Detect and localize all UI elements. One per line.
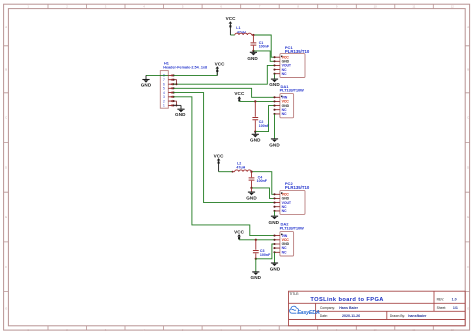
wire: C3 bottom to DA2 GND [256,244,291,259]
wire: L1 out to PC1 VCC [253,35,274,57]
wire: L2 out to PC2 VCC [252,172,275,195]
ground (DA1 pin5) [269,139,280,148]
svg-text:GND: GND [246,196,257,201]
svg-text:Hans Baier: Hans Baier [339,306,358,310]
svg-text:GND: GND [269,143,280,148]
svg-text:1.0: 1.0 [452,297,457,301]
svg-text:A: A [5,25,7,29]
ground (C2) [250,132,261,143]
power flag VCC (DA2) [234,229,245,240]
capacitor C4 [249,172,268,188]
svg-text:C: C [467,116,469,120]
svg-text:hansfbaier: hansfbaier [408,314,427,318]
optical receiver PC1 PLR135/T10 [273,45,309,77]
wire: header pin3 to DA2 VIN [173,97,274,236]
wire: C4 bottom to PC2 GND [252,188,275,199]
svg-text:D: D [467,165,469,169]
wire: header pin8 to VCC [173,69,217,76]
junction (C1 bottom) [252,50,254,52]
wire: C3 bottom to GND [255,259,257,272]
title block [289,291,466,326]
svg-text:EasyEDA: EasyEDA [297,310,320,316]
svg-text:12: 12 [451,4,455,8]
svg-text:VCC: VCC [215,61,226,66]
svg-text:7: 7 [259,4,261,8]
svg-text:GND: GND [251,275,262,280]
wire: C1 bottom to PC1 GND [253,51,274,61]
svg-text:4: 4 [143,4,145,8]
junction (C2 bottom) [254,130,256,132]
wire: header pin6 to PC1 VOUT [173,65,274,84]
wire: PC2 pin5 to GND [274,211,276,216]
svg-text:GND: GND [175,112,186,117]
svg-text:10: 10 [374,328,378,332]
svg-text:2020-11-26: 2020-11-26 [342,314,360,318]
svg-text:100nF: 100nF [260,253,271,257]
svg-text:PLR135/T10: PLR135/T10 [285,185,310,190]
junction (C3 bottom) [255,258,257,260]
svg-text:VCC: VCC [214,153,225,158]
svg-text:Sheet:: Sheet: [437,306,447,310]
wire: DA2 pin5 to GND [274,252,276,263]
svg-text:E: E [5,215,7,219]
svg-text:5: 5 [182,4,184,8]
power flag VCC (top, L1) [226,16,237,35]
svg-text:Date:: Date: [320,314,328,318]
svg-text:47uH: 47uH [236,166,245,170]
power flag VCC (DA1) [234,91,245,101]
wire: header pin5 to DA1 VIN [173,88,274,97]
svg-text:TOSLink board to FPGA: TOSLink board to FPGA [310,297,383,303]
svg-text:100nF: 100nF [257,179,268,183]
svg-text:G: G [467,307,469,311]
svg-text:1: 1 [163,104,165,108]
junction (C4 bottom) [250,187,252,189]
svg-text:C: C [5,116,7,120]
ground (left of header) [141,75,152,87]
svg-text:GND: GND [141,82,152,87]
optical transmitter DA2 PLT133/T10W [273,221,304,256]
svg-text:GND: GND [269,220,280,225]
svg-text:VCC: VCC [234,91,245,96]
svg-text:6: 6 [220,4,222,8]
junction (C2 top) [254,100,256,102]
ground (PC2 pin5) [269,216,280,225]
wire: VCC to L1 [230,34,234,36]
svg-text:Header-Female-2.54_1x8: Header-Female-2.54_1x8 [163,66,207,70]
EasyEDA logo [290,306,320,316]
svg-text:GND: GND [247,56,258,61]
wire: VCC to DA1 VCC [239,100,274,102]
svg-text:VCC: VCC [226,16,237,21]
svg-text:3: 3 [105,4,107,8]
ground (C1) [247,51,258,61]
svg-text:Company:: Company: [320,306,335,310]
capacitor C2 [252,101,270,131]
ground (DA2 pin5) [270,263,281,271]
svg-text:REV:: REV: [437,297,445,301]
junction (L2/C4 top) [250,171,252,173]
svg-text:GND: GND [250,138,261,143]
wire: GND stub to header left [146,74,168,76]
svg-text:GND: GND [270,266,281,271]
svg-text:11: 11 [412,328,415,332]
inductor L2 [232,162,252,173]
svg-text:9: 9 [336,4,338,8]
ground (PC1 pin5) [269,74,280,87]
svg-text:G: G [5,307,7,311]
svg-text:B: B [467,67,469,71]
svg-text:1/1: 1/1 [453,306,458,310]
svg-text:PLT133/T10W: PLT133/T10W [280,87,304,92]
svg-text:B: B [5,67,7,71]
svg-text:VCC: VCC [234,229,245,234]
capacitor C3 [253,240,271,259]
svg-text:7: 7 [163,78,165,82]
power flag VCC (L2) [214,153,225,171]
ground (header pin1) [175,105,186,117]
header H1 [160,62,207,109]
svg-text:A: A [467,25,469,29]
svg-text:8: 8 [297,4,299,8]
inductor L1 [235,26,254,35]
wire: header pin4 to PC2 VOUT [173,93,274,203]
wire: DA1 pin5 to GND [274,114,276,139]
svg-text:NC: NC [282,250,287,254]
ground (C4) [246,188,257,201]
wire: VCC to L2 [219,171,233,173]
wire: VCC to DA2 VCC [239,239,274,241]
svg-text:F: F [5,265,7,269]
svg-text:10: 10 [374,4,378,8]
wire: header pin2 tie to pin1 [173,101,177,106]
svg-text:100nF: 100nF [259,45,270,49]
optical transmitter DA1 PLT133/T10W [273,84,304,118]
svg-text:GND: GND [269,82,280,87]
svg-text:E: E [467,215,469,219]
svg-text:NC: NC [282,72,287,76]
svg-text:2: 2 [66,4,68,8]
svg-text:PLT133/T10W: PLT133/T10W [280,226,304,231]
svg-text:TITLE:: TITLE: [289,292,299,296]
svg-text:Drawn By:: Drawn By: [390,314,405,318]
capacitor C1 [251,35,270,51]
svg-text:NC: NC [282,112,287,116]
svg-text:F: F [467,265,469,269]
svg-text:D: D [5,165,7,169]
svg-text:11: 11 [412,4,415,8]
wire: C2 bottom to DA1 GND [255,106,290,132]
svg-text:NC: NC [282,209,287,213]
svg-text:1: 1 [27,4,29,8]
junction (L1/C1 top) [252,34,254,36]
optical receiver PC2 PLR135/T10 [273,181,309,214]
ground (C3) [251,272,262,280]
wire: header pin7 tie to pin6 [173,80,177,86]
wire: header pin1 to GND [173,104,181,106]
junction (C3 top) [255,239,257,241]
svg-text:12: 12 [451,328,455,332]
power flag VCC (header) [215,61,226,75]
